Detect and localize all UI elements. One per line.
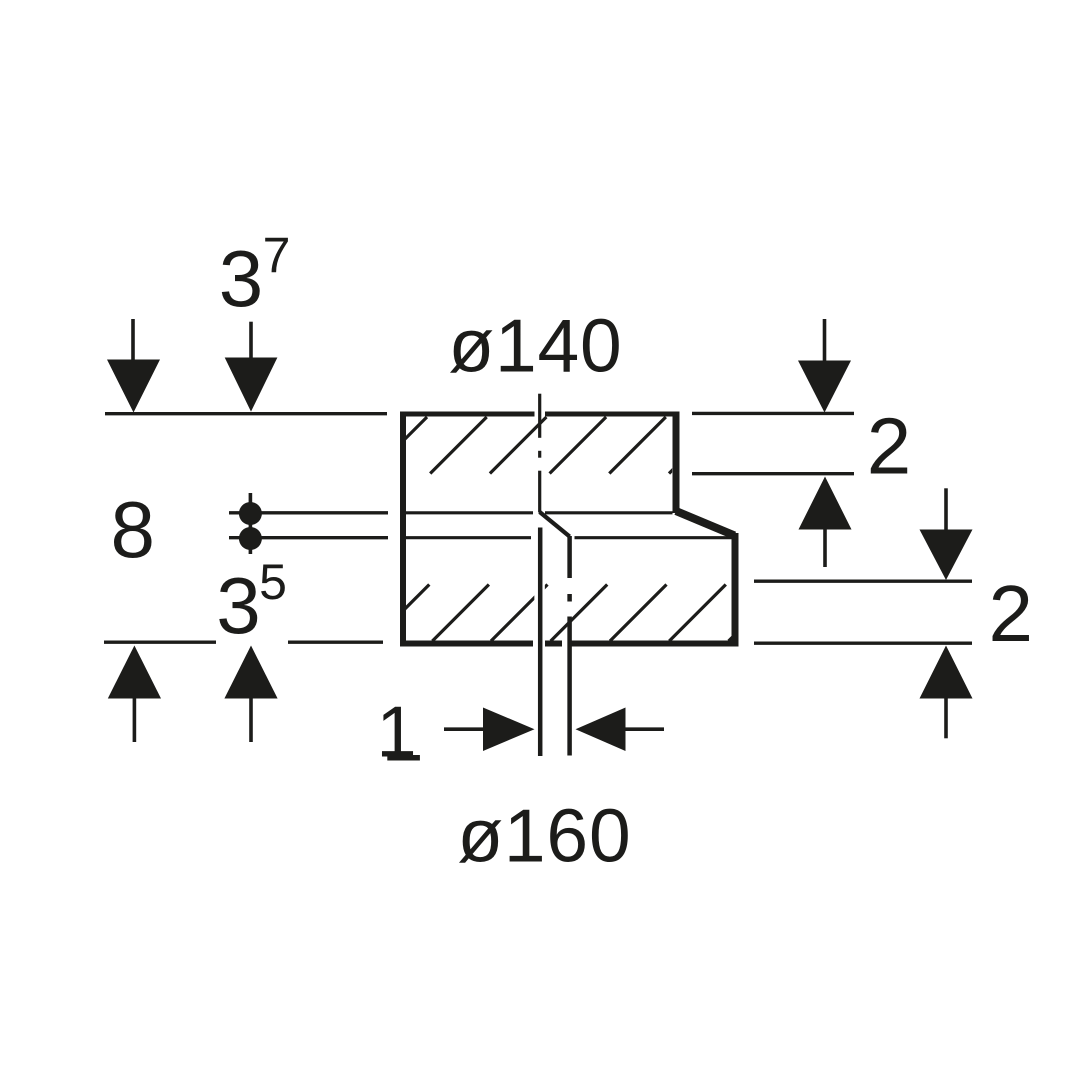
dimension line top-left (3/7 depth line) bbox=[105, 412, 387, 415]
down arrow left (dim 3) bbox=[107, 319, 160, 413]
internal step line upper bbox=[406, 511, 673, 514]
label 3 superscript 7 bbox=[219, 228, 291, 324]
dimension line bottom-left (3/5 depth line, gap under text) bbox=[104, 641, 383, 644]
body outline lower right edge bbox=[732, 533, 739, 647]
centerline jog diagonal bbox=[540, 512, 570, 537]
body outline shoulder diagonal bbox=[676, 511, 735, 536]
up arrow right bottom bbox=[224, 646, 277, 743]
down arrow upper right bbox=[798, 319, 851, 413]
label diameter 140 bbox=[448, 303, 622, 387]
centerline lower offset (dash-dot then solid) bbox=[567, 536, 572, 756]
extension lines for dim 8 (left of body) bbox=[229, 513, 388, 538]
svg-text:2: 2 bbox=[989, 569, 1034, 658]
left break line (solid vertical) bbox=[538, 528, 543, 757]
label 3 superscript 5 bbox=[216, 554, 287, 650]
white halo of break line (masks hatching) bbox=[534, 560, 545, 630]
dim 1 arrows (wall gap) bbox=[444, 708, 664, 752]
svg-text:5: 5 bbox=[259, 554, 287, 610]
svg-text:ø160: ø160 bbox=[457, 793, 631, 877]
svg-text:3: 3 bbox=[219, 234, 264, 323]
right dim lines lower pair (dim 2) bbox=[754, 581, 972, 643]
up arrow lower right bbox=[920, 646, 973, 739]
svg-text:7: 7 bbox=[263, 228, 291, 284]
down arrow right (dim 7 superscript) bbox=[225, 322, 278, 412]
centerline upper (dash-dot) bbox=[538, 394, 541, 513]
body outline left edge bbox=[400, 412, 406, 647]
label 1 with base serif bbox=[376, 693, 419, 773]
right dim lines upper pair (dim 2) bbox=[692, 413, 854, 473]
up arrow upper right bbox=[799, 477, 852, 568]
hatching lower band bbox=[373, 585, 785, 642]
body outline upper right edge bbox=[673, 412, 680, 514]
body outline bottom edge (gaps at centerlines) bbox=[400, 641, 533, 647]
svg-text:8: 8 bbox=[111, 485, 156, 574]
dim 8 tick with dots bbox=[239, 493, 262, 554]
internal step line lower bbox=[406, 536, 732, 539]
hatching upper band bbox=[371, 417, 726, 474]
svg-text:3: 3 bbox=[216, 561, 261, 650]
body outline top edge (gap at centerline) bbox=[400, 412, 535, 417]
up arrow left bottom bbox=[108, 646, 161, 743]
svg-text:2: 2 bbox=[867, 402, 912, 491]
down arrow lower right bbox=[920, 488, 973, 580]
label 8 bbox=[111, 485, 156, 574]
svg-text:ø140: ø140 bbox=[448, 303, 622, 387]
